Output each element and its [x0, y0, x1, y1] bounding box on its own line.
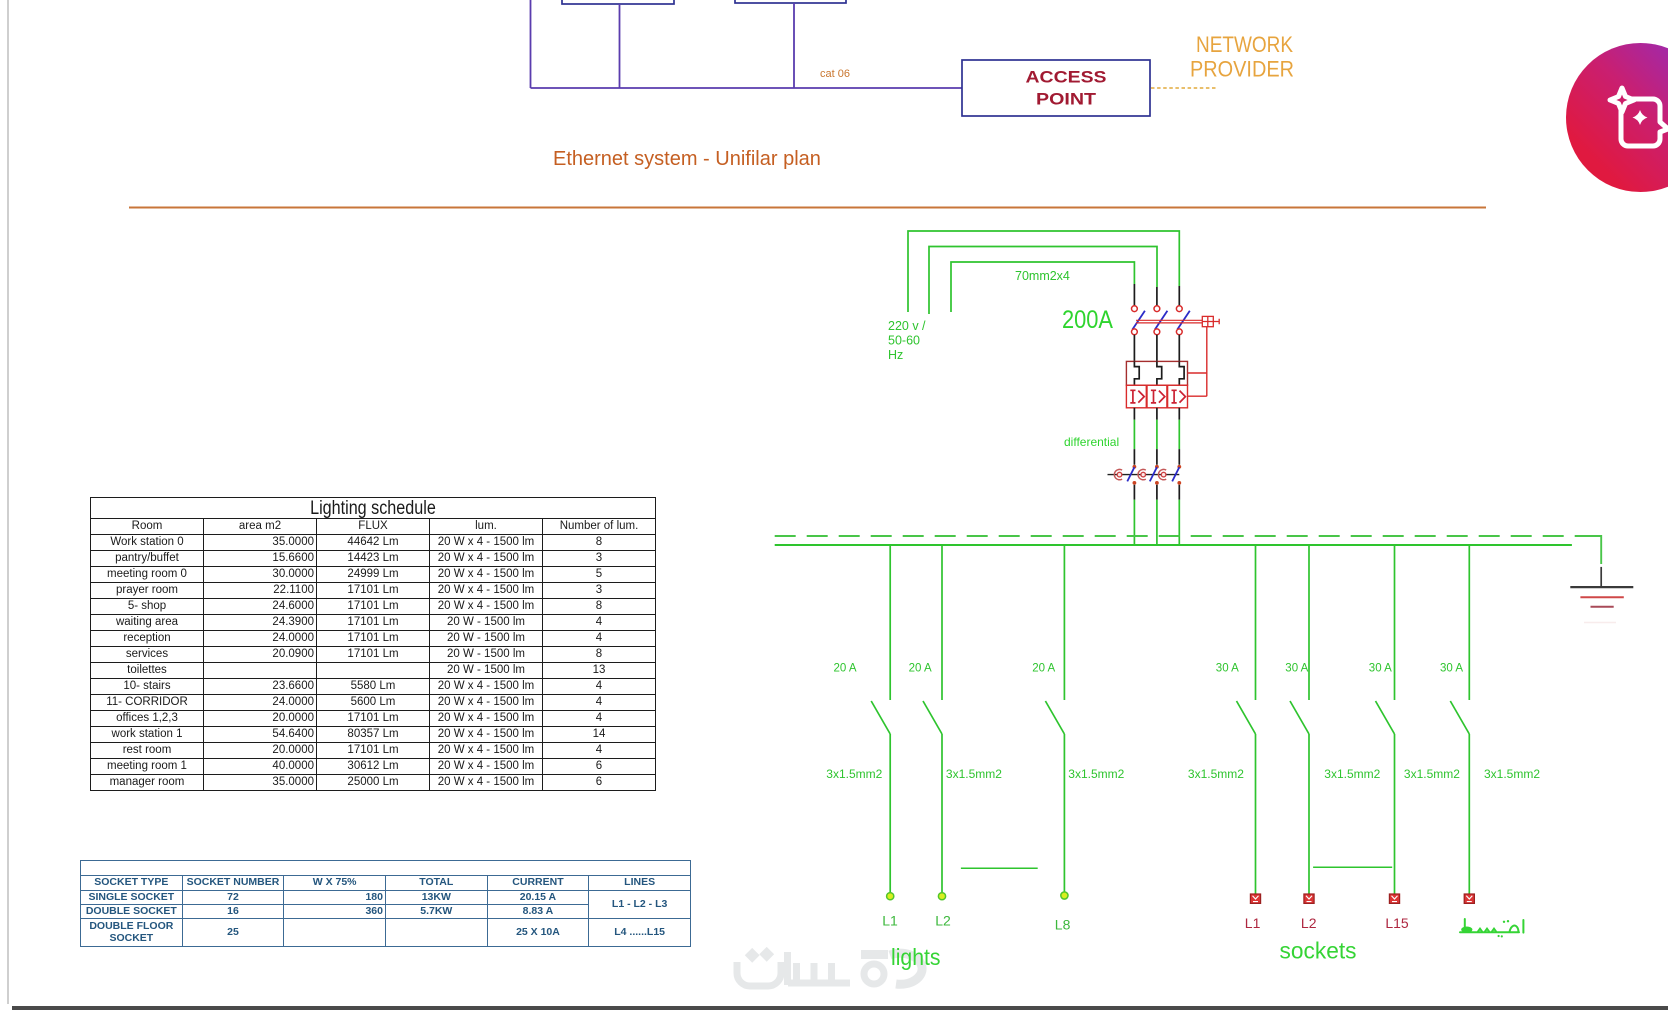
- svg-text:PROVIDER: PROVIDER: [1190, 57, 1294, 82]
- wire: feeder bracket middle (phase 2): [929, 247, 1157, 315]
- svg-text:lights: lights: [891, 944, 941, 970]
- svg-text:L1: L1: [1245, 915, 1261, 931]
- branch spare wire to socket: [1468, 734, 1470, 894]
- svg-text:POINT: POINT: [1036, 91, 1096, 109]
- lamp L2: [938, 893, 945, 900]
- wire: green mid sections: [1134, 420, 1179, 449]
- lighting schedule table: [90, 497, 656, 791]
- svg-text:ACCESS: ACCESS: [1026, 69, 1107, 87]
- wire: from switch box 2 down: [793, 3, 795, 88]
- wire: tie between L2 and L8 branches: [961, 867, 1038, 869]
- svg-text:L1: L1: [882, 913, 898, 929]
- wire: green drops to bus: [1134, 500, 1179, 545]
- svg-text:70mm2x4: 70mm2x4: [1015, 269, 1070, 283]
- svg-text:L2: L2: [1301, 915, 1317, 931]
- wire: from switch box 1 down: [619, 4, 621, 88]
- svg-text:Ethernet system - Unifilar pla: Ethernet system - Unifilar plan: [553, 148, 821, 170]
- svg-text:L15: L15: [1385, 915, 1409, 931]
- branch L1 breaker 20A blade: [871, 701, 890, 734]
- five flag: [861, 950, 888, 959]
- khamsat watermark: [737, 952, 922, 986]
- wire: black stubs below RCD: [1134, 485, 1179, 500]
- svg-text:NETWORK: NETWORK: [1196, 32, 1293, 57]
- svg-text:220 v /: 220 v /: [888, 319, 926, 333]
- svg-text:20 A: 20 A: [909, 663, 932, 675]
- branch spare: wire drop: [1468, 545, 1470, 700]
- branch S-L1 wire to socket: [1255, 734, 1257, 894]
- socket schedule table: [80, 860, 691, 947]
- wire: tie between S-L2 and S-L15 branches: [1313, 866, 1392, 868]
- svg-text:30 A: 30 A: [1440, 663, 1463, 675]
- socket symbol S-L1: [1250, 894, 1260, 903]
- wire: pole1 stub to contact: [1133, 284, 1135, 306]
- neutral bus corner to ground: [1580, 536, 1601, 564]
- breaker contact circles bottom: [1132, 329, 1138, 335]
- svg-text:3x1.5mm2: 3x1.5mm2: [946, 767, 1002, 781]
- taa dots: [745, 948, 760, 963]
- svg-text:30 A: 30 A: [1216, 663, 1239, 675]
- branch L2 lights: wire drop: [941, 545, 943, 700]
- branch L2 breaker 20A blade: [923, 701, 942, 734]
- wire: left drop to horizontal bus: [530, 0, 532, 88]
- breaker linkage double bar: [1136, 320, 1202, 323]
- branch L8 wire to lamp: [1063, 734, 1065, 892]
- khamsat logo: [1566, 43, 1668, 192]
- branch L1 lights: wire drop: [889, 545, 891, 700]
- svg-text:L2: L2: [935, 913, 951, 929]
- RCD torus pole1: [1117, 472, 1122, 477]
- seen baseline: [788, 980, 850, 987]
- svg-text:differential: differential: [1064, 435, 1119, 449]
- branch S-L2 sockets: wire drop: [1308, 545, 1310, 700]
- svg-text:3x1.5mm2: 3x1.5mm2: [826, 767, 882, 781]
- I> glyph pole2: [1151, 390, 1165, 403]
- speech document: [1621, 99, 1668, 146]
- branch S-L15 breaker 30A blade: [1376, 701, 1395, 734]
- RCD link line: [1108, 474, 1180, 476]
- breaker blade pole1: [1132, 311, 1145, 330]
- sparkle big: [1610, 88, 1634, 112]
- svg-text:3x1.5mm2: 3x1.5mm2: [1068, 767, 1124, 781]
- magnetic trip boxes I>: [1126, 385, 1146, 408]
- bottom page edge: [12, 1006, 1668, 1010]
- wire: pole2 stub to contact: [1156, 287, 1158, 306]
- svg-text:20 A: 20 A: [834, 663, 857, 675]
- branch L8 breaker 20A blade: [1045, 701, 1064, 734]
- thermal element pole3: [1179, 361, 1184, 385]
- main bus bar: [775, 544, 1572, 546]
- thermal overload box: [1126, 361, 1187, 385]
- breaker blade pole2: [1155, 311, 1168, 330]
- RCD torus pole3: [1161, 472, 1166, 477]
- divider line: [129, 207, 1486, 209]
- branch S-L1 breaker 30A blade: [1237, 701, 1256, 734]
- socket symbol S-L2: [1304, 894, 1314, 903]
- ground bar 3: [1591, 606, 1614, 608]
- branch spare breaker 30A blade: [1450, 701, 1469, 734]
- seen teeth: [797, 963, 832, 982]
- trip coil box with cross: [1202, 316, 1213, 326]
- wire: poles to thermal unit: [1134, 335, 1179, 362]
- socket symbol spare: [1464, 894, 1474, 903]
- branch S-L15 wire to socket: [1394, 734, 1396, 894]
- socket symbol S-L15: [1389, 894, 1399, 903]
- RCD torus pole2: [1141, 472, 1146, 477]
- switch box 1 (cut off at top): [562, 0, 674, 4]
- I> glyph pole3: [1172, 390, 1186, 403]
- RCD contact dots top: [1133, 465, 1137, 469]
- branch L2 wire to lamp: [941, 734, 943, 892]
- svg-text:30 A: 30 A: [1369, 663, 1392, 675]
- wire: feeder bracket inner (phase 1): [951, 262, 1134, 312]
- lamp L8: [1061, 892, 1068, 899]
- alef: [784, 952, 791, 985]
- wire: pole3 stub to contact: [1178, 286, 1180, 306]
- branch L1 wire to lamp: [889, 734, 891, 892]
- five bowl: [864, 964, 884, 984]
- taa bowl: [737, 962, 781, 986]
- svg-text:Hz: Hz: [888, 348, 903, 362]
- svg-text:200A: 200A: [1062, 306, 1113, 334]
- wire: feeder bracket outer (phase 3): [908, 231, 1179, 312]
- khamsat logo icon: [1610, 88, 1668, 146]
- thermal element pole2: [1157, 361, 1162, 385]
- branch S-L1 sockets: wire drop: [1255, 545, 1257, 700]
- switch box 2 (cut off at top): [735, 0, 846, 3]
- svg-text:3x1.5mm2: 3x1.5mm2: [1484, 767, 1540, 781]
- RCD contact dots bottom: [1133, 481, 1137, 485]
- svg-text:L8: L8: [1055, 917, 1071, 933]
- wire: stubs below breaker: [1134, 408, 1179, 420]
- ground bar 4 (faint): [1584, 622, 1616, 624]
- label spare (arabic): [1460, 919, 1523, 933]
- svg-text:50-60: 50-60: [888, 334, 920, 348]
- svg-text:cat 06: cat 06: [820, 68, 850, 80]
- breaker blade pole3: [1177, 311, 1190, 330]
- thermal element pole1: [1134, 361, 1139, 385]
- I> glyph pole1: [1130, 390, 1144, 403]
- ground bar 1: [1570, 586, 1633, 588]
- neutral dashed bus: [775, 535, 1580, 537]
- svg-text:20 A: 20 A: [1032, 663, 1055, 675]
- RCD blades: [1127, 467, 1179, 481]
- ground lead: [1600, 567, 1602, 587]
- branch S-L15 sockets: wire drop: [1394, 545, 1396, 700]
- svg-text:3x1.5mm2: 3x1.5mm2: [1404, 767, 1460, 781]
- lamp L1: [887, 893, 894, 900]
- wire: black stubs above RCD contacts: [1134, 449, 1179, 465]
- svg-text:30 A: 30 A: [1285, 663, 1308, 675]
- svg-text:3x1.5mm2: 3x1.5mm2: [1324, 767, 1380, 781]
- svg-text:sockets: sockets: [1280, 938, 1357, 964]
- haa swash: [890, 953, 922, 984]
- sparkle small: [1633, 110, 1648, 125]
- wire: horizontal cat06 run to access point: [531, 87, 963, 89]
- branch S-L2 wire to socket: [1308, 734, 1310, 894]
- left page edge: [7, 0, 9, 1004]
- ground bar 2: [1580, 596, 1623, 598]
- breaker contact circles top: [1132, 306, 1138, 312]
- svg-text:3x1.5mm2: 3x1.5mm2: [1188, 767, 1244, 781]
- access point box: [962, 60, 1150, 116]
- wire: dashed link to network provider: [1151, 87, 1218, 89]
- branch S-L2 breaker 30A blade: [1290, 701, 1309, 734]
- branch L8 lights: wire drop: [1063, 545, 1065, 700]
- trip linkage right side: [1188, 327, 1207, 397]
